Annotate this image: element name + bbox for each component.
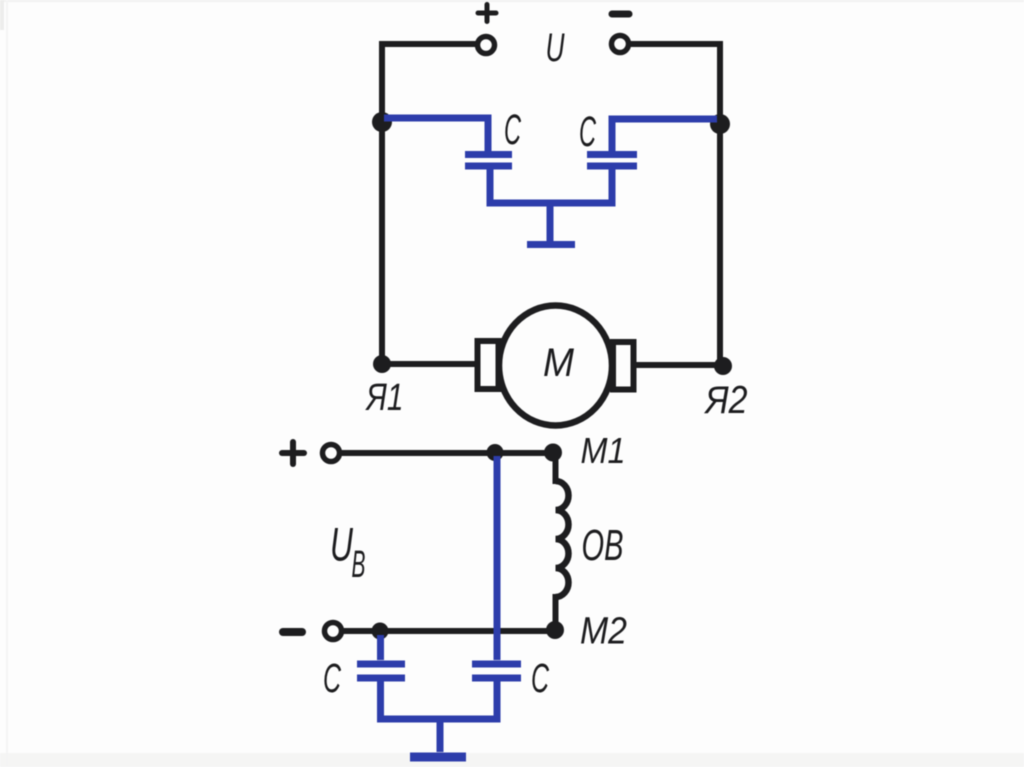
svg-text:C: C xyxy=(531,656,549,702)
svg-text:U: U xyxy=(330,519,354,571)
svg-text:В: В xyxy=(352,544,366,586)
svg-text:M: M xyxy=(543,341,575,386)
svg-text:C: C xyxy=(504,107,522,154)
svg-text:Я1: Я1 xyxy=(365,377,404,419)
svg-text:M1: M1 xyxy=(581,431,626,471)
svg-text:ОВ: ОВ xyxy=(582,520,624,570)
svg-text:M2: M2 xyxy=(580,609,627,652)
svg-text:C: C xyxy=(323,656,341,702)
svg-text:Я2: Я2 xyxy=(704,378,748,422)
svg-text:C: C xyxy=(579,109,597,156)
svg-text:U: U xyxy=(546,26,565,71)
